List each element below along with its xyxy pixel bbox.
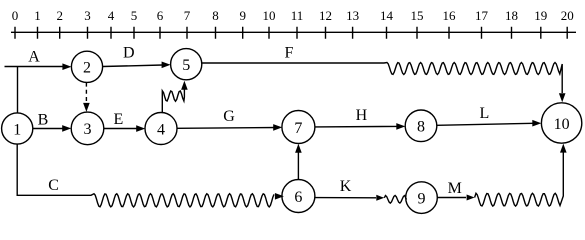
- svg-text:11: 11: [291, 8, 304, 23]
- svg-text:4: 4: [108, 8, 115, 23]
- ruler axis line: [11, 31, 576, 33]
- svg-text:5: 5: [131, 8, 138, 23]
- squiggle float connector from node 4 up to node 5: [162, 89, 184, 113]
- wire activity L from node 8 to node 10: [437, 123, 533, 125]
- svg-text:6: 6: [157, 8, 164, 23]
- svg-text:10: 10: [263, 8, 276, 23]
- svg-text:0: 0: [12, 8, 19, 23]
- svg-text:20: 20: [561, 8, 574, 23]
- svg-text:6: 6: [294, 189, 302, 206]
- svg-text:1: 1: [13, 121, 21, 138]
- node 3 event circle: [71, 112, 104, 145]
- dummy arrow from node 6 up to node 7: [297, 151, 299, 179]
- svg-text:2: 2: [56, 8, 63, 23]
- ruler scale numbers 0 to 20: [12, 8, 574, 23]
- node 2 event circle: [71, 51, 102, 82]
- svg-text:C: C: [48, 177, 59, 194]
- wire activity F from node 5 right, wavy float, down into node 10: [202, 63, 562, 94]
- svg-text:D: D: [123, 45, 135, 62]
- svg-text:7: 7: [294, 120, 302, 137]
- wire activity A from node 1 up and right to node 2: [5, 67, 64, 114]
- node 1 event circle: [2, 113, 33, 144]
- svg-text:15: 15: [411, 8, 424, 23]
- svg-text:A: A: [28, 49, 40, 66]
- wire activity E from node 3 to node 4: [104, 128, 137, 130]
- node 4 event circle: [145, 113, 177, 145]
- svg-text:14: 14: [380, 8, 394, 23]
- svg-text:5: 5: [182, 57, 190, 74]
- svg-text:B: B: [38, 112, 49, 129]
- svg-text:17: 17: [475, 8, 489, 23]
- wire activity D from node 2 to node 5: [103, 65, 163, 67]
- wire activity K from node 6 to node 9 with short wavy float: [315, 197, 376, 199]
- svg-text:2: 2: [83, 60, 91, 77]
- ruler tick marks: [15, 27, 567, 39]
- node 7 event circle: [282, 111, 315, 144]
- svg-text:9: 9: [239, 8, 246, 23]
- svg-text:8: 8: [417, 119, 425, 136]
- node 6 event circle: [282, 180, 315, 213]
- svg-text:7: 7: [184, 8, 191, 23]
- wire activity C from node 1 down, right, wavy float into node 6: [17, 144, 274, 207]
- svg-text:L: L: [480, 105, 490, 122]
- svg-text:M: M: [448, 180, 462, 197]
- svg-text:G: G: [223, 108, 235, 125]
- svg-text:3: 3: [84, 8, 91, 23]
- node 10 event circle: [541, 103, 581, 143]
- wire activity G from node 4 to node 7: [177, 127, 279, 130]
- svg-text:E: E: [114, 111, 124, 128]
- svg-text:4: 4: [157, 121, 165, 138]
- node 5 event circle: [171, 49, 202, 80]
- svg-text:13: 13: [346, 8, 359, 23]
- svg-text:9: 9: [418, 190, 426, 207]
- svg-text:F: F: [285, 45, 294, 62]
- wire activity H from node 7 to node 8: [315, 125, 397, 128]
- svg-text:3: 3: [84, 121, 92, 138]
- wire activity B from node 1 to node 3: [33, 128, 63, 130]
- node 9 event circle: [406, 182, 438, 214]
- svg-text:16: 16: [443, 8, 457, 23]
- svg-text:8: 8: [212, 8, 219, 23]
- svg-text:19: 19: [534, 8, 547, 23]
- svg-text:18: 18: [505, 8, 518, 23]
- svg-text:K: K: [340, 178, 352, 195]
- node 8 event circle: [405, 110, 437, 142]
- svg-text:10: 10: [554, 116, 570, 133]
- wire activity M from node 9 wavy float up into node 10: [437, 197, 466, 199]
- svg-text:12: 12: [319, 8, 332, 23]
- svg-text:H: H: [356, 107, 368, 124]
- dashed dummy arrow from node 2 down to node 3: [85, 83, 87, 105]
- svg-text:1: 1: [34, 8, 41, 23]
